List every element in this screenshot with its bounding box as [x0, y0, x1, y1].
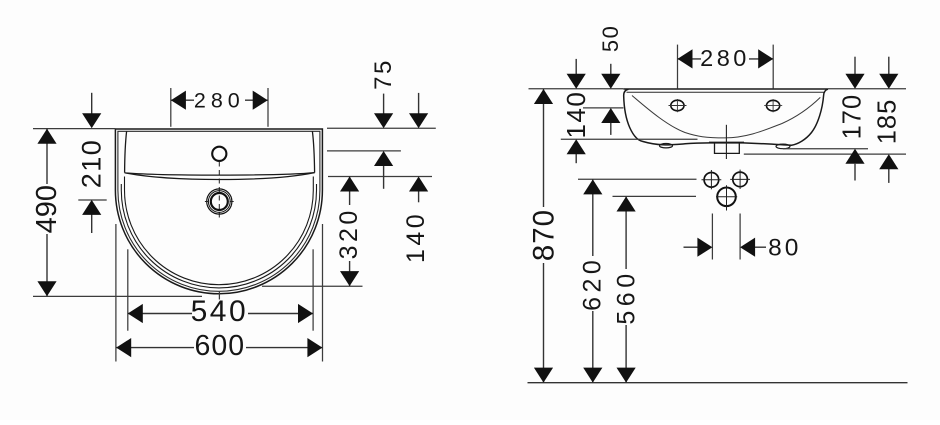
- ext 80 right: [739, 214, 741, 260]
- dim shafts 210: [91, 93, 93, 114]
- ext upper holes level (620 ref): [578, 178, 697, 180]
- dim line 280 left: [171, 99, 268, 101]
- ext rim level (75 ref): [327, 150, 401, 152]
- dim line 870: [543, 89, 545, 383]
- arrow 50 top (down): [601, 74, 620, 89]
- ext 280 left: [170, 88, 172, 127]
- svg-text:50: 50: [598, 25, 623, 52]
- ext bowl front bottom (140R ref): [561, 138, 698, 140]
- bowl section curve: [632, 96, 820, 138]
- ext bottom left (490 ref): [33, 295, 202, 297]
- hole circle big: [717, 188, 736, 207]
- arrow 210 bottom (up, outside): [82, 200, 101, 215]
- left foot: [660, 144, 673, 148]
- arrow 540 right: [298, 304, 313, 323]
- dim line 280 right: [678, 58, 774, 60]
- ext 80 left: [711, 214, 713, 260]
- arrow 140L top (down): [409, 113, 428, 128]
- basin outer offset line: [118, 131, 320, 291]
- ext top level left: [529, 88, 624, 90]
- arrow 620 bottom (down): [583, 368, 602, 383]
- arrow 280L right: [253, 91, 268, 110]
- ext 280 right: [267, 88, 269, 127]
- dim line 490: [46, 129, 48, 296]
- arrow 320 top (up): [340, 177, 359, 192]
- dim line 320: [349, 177, 351, 287]
- basin outer outline: [115, 129, 322, 294]
- arrow 280L left: [171, 91, 186, 110]
- ext bowl bottom (320 ref): [262, 285, 363, 287]
- svg-text:75: 75: [370, 58, 397, 90]
- arrow 600 right: [307, 338, 322, 357]
- bowl inner offset line outer: [121, 184, 316, 288]
- drain outer circle: [207, 189, 232, 214]
- ext top level right: [828, 88, 906, 90]
- svg-text:280: 280: [700, 45, 750, 71]
- centerline dashed: [218, 162, 220, 219]
- basin inner corner left: [125, 131, 127, 172]
- ext big hole level (560 ref): [613, 195, 697, 197]
- arrow 80 left (right-pointing): [697, 238, 712, 257]
- arrow 170 top (down): [845, 74, 864, 89]
- arrow 490 top (up): [37, 129, 56, 144]
- drain tick right: [230, 201, 234, 203]
- svg-text:320: 320: [335, 207, 363, 259]
- svg-text:490: 490: [31, 185, 63, 233]
- drain tick left: [205, 201, 209, 203]
- arrow 560 top (up): [617, 197, 636, 212]
- svg-text:140: 140: [402, 211, 430, 263]
- svg-text:560: 560: [612, 269, 640, 324]
- dim shafts 50: [610, 64, 612, 75]
- side outline top edge inner: [627, 91, 826, 93]
- dim shafts 140 right: [575, 59, 577, 75]
- ext top right (75/140 ref): [327, 127, 436, 129]
- ext shelf level (140/320 ref): [328, 176, 432, 178]
- arrow 140R bottom (up): [567, 139, 586, 154]
- dim shafts 75: [383, 94, 385, 114]
- ext 280R right: [772, 45, 774, 89]
- arrow 185 top (down): [879, 74, 898, 89]
- arrow 870 top (up): [534, 89, 553, 104]
- hole circle small right: [733, 172, 748, 187]
- arrow 320 bottom (down): [340, 271, 359, 286]
- bottom center tick: [218, 291, 220, 300]
- right foot: [776, 144, 790, 149]
- mounting hole right: [767, 100, 780, 111]
- arrow 540 left: [128, 304, 143, 323]
- arrows left view: [37, 91, 428, 358]
- arrow 75 top (down): [374, 113, 393, 128]
- ext 600 right: [322, 224, 324, 362]
- side outline top edge: [624, 88, 829, 90]
- svg-text:870: 870: [527, 209, 560, 261]
- bowl inner offset line inner: [125, 177, 314, 285]
- svg-text:210: 210: [77, 139, 107, 189]
- arrow 140L bottom (up): [409, 177, 428, 192]
- dim shafts 140 left: [418, 93, 420, 114]
- arrow 50 bottom (up): [601, 108, 620, 123]
- basin inner corner right: [312, 131, 314, 172]
- svg-text:140: 140: [561, 91, 591, 139]
- arrow 560 bottom (down): [617, 368, 636, 383]
- basin shelf upper curve: [125, 173, 315, 176]
- ext hole level (50 ref): [583, 107, 623, 109]
- svg-text:280: 280: [194, 89, 245, 113]
- svg-text:80: 80: [768, 235, 801, 262]
- arrow 870 bottom (down): [534, 368, 553, 383]
- arrow 170 bottom (up): [845, 149, 864, 164]
- arrow 600 left: [116, 338, 131, 357]
- drain boss: [715, 143, 740, 153]
- ext 540 left: [127, 249, 129, 330]
- dim line 540: [128, 313, 313, 315]
- floor line: [528, 382, 908, 384]
- ext 600 left: [115, 224, 117, 362]
- ext 280R left: [677, 45, 679, 89]
- text masks right view: [534, 50, 749, 326]
- boss top line: [709, 141, 744, 143]
- arrow 75 bottom (up): [374, 151, 393, 166]
- labels left view: [31, 58, 430, 362]
- side outline front face and bottom: [624, 89, 828, 145]
- arrow 80 right (left-pointing): [740, 238, 755, 257]
- ext 170 bottom ref: [783, 148, 868, 150]
- dim line 560: [625, 197, 627, 383]
- svg-text:540: 540: [191, 295, 249, 328]
- dim shafts 185: [888, 57, 890, 75]
- mounting hole left: [671, 100, 684, 111]
- dim shafts 170: [854, 57, 856, 75]
- hole circle small left: [704, 173, 719, 188]
- dim shafts 80: [684, 246, 699, 248]
- svg-text:185: 185: [874, 99, 902, 145]
- drain middle circle: [208, 191, 230, 213]
- arrow 185 bottom (up): [879, 154, 898, 169]
- arrow 280R right: [758, 49, 773, 68]
- basin shelf lower curve: [125, 173, 315, 180]
- dim line 620: [592, 179, 594, 382]
- ext 185 bottom ref: [744, 153, 906, 155]
- svg-text:170: 170: [839, 94, 867, 140]
- ext drain level (210 ref): [78, 199, 106, 201]
- drain inner circle: [211, 193, 228, 210]
- ext top left (490/210 ref): [33, 128, 115, 130]
- svg-text:600: 600: [195, 330, 246, 362]
- dim line 600: [116, 347, 322, 349]
- arrow 280R left: [678, 49, 693, 68]
- svg-text:620: 620: [579, 256, 607, 311]
- arrow 490 bottom (down): [37, 281, 56, 296]
- labels right view: [527, 25, 901, 325]
- arrow 210 top (down, outside): [82, 113, 101, 128]
- arrow 140R top (down): [567, 74, 586, 89]
- drain centerline: [725, 125, 727, 159]
- faucet hole: [212, 147, 226, 161]
- ext 540 right: [312, 249, 314, 330]
- text masks left view: [38, 91, 359, 358]
- arrow 620 top (up): [583, 179, 602, 194]
- arrows right view: [534, 49, 899, 382]
